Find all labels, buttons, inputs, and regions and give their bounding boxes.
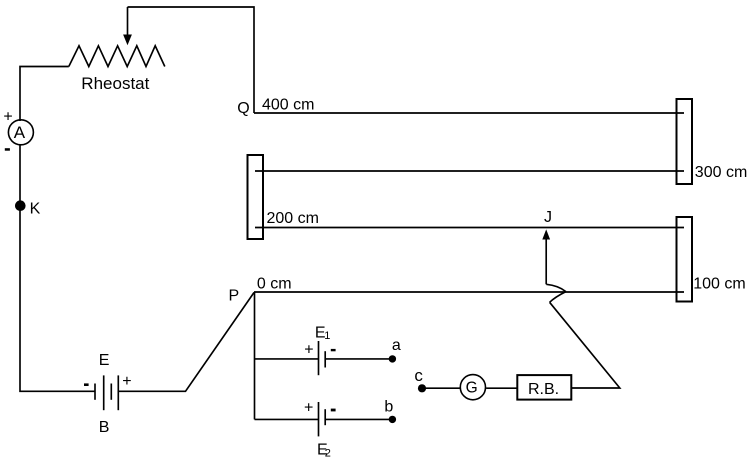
- svg-text:2: 2: [325, 448, 331, 460]
- svg-text:R.B.: R.B.: [528, 381, 559, 398]
- svg-text:0 cm: 0 cm: [257, 276, 292, 293]
- svg-text:Q: Q: [237, 100, 249, 117]
- svg-text:Rheostat: Rheostat: [81, 74, 149, 93]
- svg-text:+: +: [304, 400, 313, 417]
- svg-text:c: c: [414, 366, 423, 385]
- svg-text:G: G: [466, 379, 478, 396]
- svg-text:1: 1: [324, 330, 330, 342]
- svg-text:E: E: [99, 352, 110, 369]
- svg-text:J: J: [544, 209, 552, 226]
- svg-text:200 cm: 200 cm: [267, 210, 319, 227]
- svg-text:400 cm: 400 cm: [262, 97, 314, 114]
- svg-text:300 cm: 300 cm: [695, 164, 747, 181]
- svg-text:b: b: [384, 398, 393, 415]
- svg-text:+: +: [122, 373, 131, 390]
- svg-text:P: P: [229, 288, 240, 305]
- svg-text:B: B: [99, 419, 110, 436]
- svg-text:K: K: [30, 200, 41, 217]
- svg-text:a: a: [392, 337, 401, 354]
- svg-text:A: A: [14, 123, 26, 142]
- svg-text:100 cm: 100 cm: [693, 276, 745, 293]
- svg-text:+: +: [304, 342, 313, 359]
- svg-text:+: +: [3, 109, 12, 126]
